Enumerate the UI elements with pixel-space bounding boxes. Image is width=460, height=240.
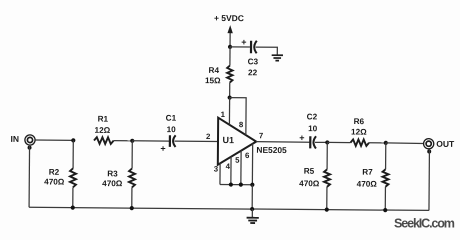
svg-text:+: + [299,133,304,143]
resistor R5 [324,169,330,187]
junction R7 rail [383,208,387,212]
op-amp U1 body [218,118,257,165]
wire R1 to node B [114,140,133,142]
svg-text:U1: U1 [222,135,234,145]
wire C2 to node C [315,141,327,143]
wire R6 to node D [369,142,386,144]
svg-text:470Ω: 470Ω [102,179,123,188]
resistor R3 [129,168,135,187]
wire node B to R3 [131,141,133,169]
wire IN jack to node A [35,139,73,141]
svg-text:R1: R1 [98,115,109,124]
wire C3 to ground G1 [256,47,278,55]
resistor R1 [94,137,114,144]
resistor R2 [70,168,76,187]
wire node A to R2 [72,140,74,168]
resistor R4 [227,66,233,83]
wire R4 to pin node [229,83,231,98]
junction R5 rail [325,208,329,212]
wire node B to C1 [132,140,169,142]
junction node D [384,141,388,145]
svg-text:+: + [241,37,246,47]
wire node D to OUT jack [386,142,424,145]
svg-text:3: 3 [214,164,219,173]
wire to pin 8 [229,98,246,135]
svg-text:470Ω: 470Ω [299,179,320,188]
svg-text:12Ω: 12Ω [95,126,111,135]
svg-text:SeekIC.com: SeekIC.com [394,217,455,231]
wire OUT jack down to rail [428,149,430,211]
junction R3 rail [130,206,134,210]
wire supply node to R4 [229,47,231,66]
svg-text:C2: C2 [307,112,318,121]
wire U1 pin 7 to C2 [256,141,309,144]
wire pin 6 [251,144,253,185]
junction node C [325,140,329,144]
svg-text:22: 22 [248,68,258,77]
junction node B [130,139,134,143]
junction bus rail [250,207,254,211]
resistor R7 [382,169,388,187]
capacitor C3 [251,41,257,54]
capacitor C2 [310,136,316,148]
svg-text:R3: R3 [107,169,118,178]
svg-text:+ 5VDC: + 5VDC [214,13,244,23]
wire supply node to C3 [230,46,250,48]
svg-text:1: 1 [221,110,226,119]
junction under OUT jack [427,150,431,154]
junction supply node [228,45,232,49]
wire bus to rail [251,185,253,209]
junction pin 4 bus [229,182,233,186]
svg-text:R5: R5 [304,167,315,176]
wire IN jack down to ground rail [28,145,30,207]
svg-text:8: 8 [239,120,244,129]
junction pin 6 bus [250,183,254,187]
junction node A [71,138,75,142]
svg-text:12Ω: 12Ω [351,128,367,137]
wire pin bus [220,183,252,185]
svg-text:R7: R7 [362,168,373,177]
svg-text:OUT: OUT [436,139,455,149]
wire node C to R5 [326,142,328,169]
svg-text:470Ω: 470Ω [44,177,65,186]
wire to pin 1 [228,98,230,125]
wire R3 to rail [131,187,133,208]
junction R2 rail [71,206,75,210]
junction pin 5 bus [239,183,243,187]
svg-text:10: 10 [167,125,177,134]
svg-text:NE5205: NE5205 [256,145,287,155]
svg-text:+: + [160,144,165,154]
svg-text:C3: C3 [248,57,259,66]
svg-text:470Ω: 470Ω [357,180,378,189]
capacitor C1 [170,135,176,147]
junction under IN jack [28,146,32,150]
ground G2 [247,209,259,223]
wire pin 4 [230,156,232,184]
wire R7 to rail [384,187,386,210]
svg-text:R4: R4 [209,66,220,75]
wire R5 to rail [326,187,328,210]
svg-text:4: 4 [226,162,231,171]
supply arrow symbol [227,25,233,47]
svg-text:IN: IN [10,134,19,144]
wire pin 3 [219,163,221,185]
wire R2 to rail [72,187,74,207]
svg-text:R6: R6 [354,117,365,126]
svg-text:10: 10 [308,124,318,133]
wire C1 to U1 pin 2 [175,140,218,142]
svg-text:C1: C1 [166,114,177,123]
svg-text:2: 2 [206,132,211,141]
connector jack IN [25,135,35,145]
svg-text:7: 7 [259,131,263,140]
wire pin 5 [240,150,242,184]
svg-text:5: 5 [235,156,240,165]
svg-text:15Ω: 15Ω [205,76,221,85]
ground G1 [272,55,283,60]
wire node C to R6 [327,141,350,143]
svg-text:R2: R2 [49,168,60,177]
wire bottom ground rail [29,207,429,210]
connector jack OUT [424,139,434,149]
svg-text:6: 6 [245,151,250,160]
resistor R6 [350,139,369,146]
junction R4 / pins 1,8 [228,95,232,99]
wire node D to R7 [385,143,387,169]
